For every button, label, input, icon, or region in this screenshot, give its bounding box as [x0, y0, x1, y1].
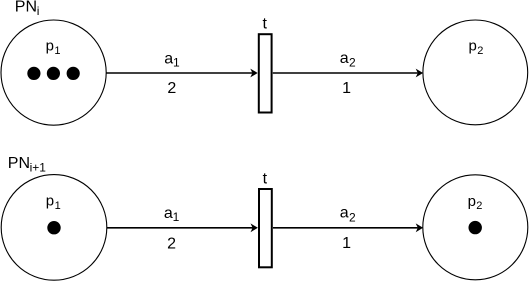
- svg-text:a: a: [164, 50, 173, 67]
- arc a1 arrowhead (row 1): [250, 69, 257, 78]
- svg-text:1: 1: [342, 80, 351, 97]
- token 1 in p1 (row 1): [27, 67, 40, 80]
- svg-text:1: 1: [173, 210, 180, 224]
- svg-text:1: 1: [55, 200, 61, 212]
- net label PN_i+1: [8, 155, 46, 175]
- arc a1 arrowhead (row 2): [251, 223, 258, 232]
- svg-text:1: 1: [173, 56, 180, 70]
- label a1 (row 2): [164, 205, 180, 224]
- label a1 (row 1): [164, 50, 180, 69]
- svg-text:2: 2: [349, 210, 356, 224]
- token 2 in p1 (row 1): [47, 67, 60, 80]
- svg-text:2: 2: [476, 200, 482, 212]
- svg-text:PN: PN: [8, 155, 30, 172]
- svg-text:i: i: [37, 4, 40, 18]
- transition t (row 1): [259, 34, 272, 112]
- svg-text:2: 2: [167, 80, 176, 97]
- place p1 (row 2): [1, 175, 107, 281]
- label p2 (row 2): [468, 193, 483, 212]
- label p2 (row 1): [469, 38, 484, 57]
- token in p1 (row 2): [47, 221, 60, 234]
- arc a2 arrowhead (row 1): [416, 69, 423, 78]
- svg-text:a: a: [340, 50, 349, 67]
- arc a2 wire (row 2): [273, 227, 418, 229]
- svg-text:PN: PN: [15, 0, 37, 16]
- place p1 (row 1): [1, 20, 106, 125]
- label a2 (row 2): [340, 205, 356, 225]
- svg-text:a: a: [340, 205, 349, 222]
- arc a2 wire (row 1): [273, 72, 418, 74]
- svg-text:2: 2: [349, 55, 356, 69]
- label p1 (row 1): [46, 38, 61, 57]
- svg-text:p: p: [469, 38, 477, 55]
- svg-text:1: 1: [54, 45, 60, 57]
- transition t (row 2): [259, 189, 272, 267]
- place p2 (row 1): [423, 20, 528, 125]
- svg-text:a: a: [164, 205, 173, 222]
- arc a2 arrowhead (row 2): [416, 223, 423, 232]
- net label PN_i: [15, 0, 40, 18]
- svg-text:2: 2: [167, 236, 176, 253]
- place p2 (row 2): [423, 175, 528, 280]
- svg-text:1: 1: [342, 235, 351, 252]
- arc a1 wire (row 2): [107, 227, 253, 229]
- label a2 (row 1): [340, 50, 356, 70]
- arc a1 wire (row 1): [106, 72, 252, 74]
- svg-text:p: p: [46, 193, 54, 210]
- svg-text:t: t: [262, 16, 267, 33]
- svg-text:2: 2: [477, 45, 483, 57]
- token 3 in p1 (row 1): [67, 67, 80, 80]
- svg-text:p: p: [468, 193, 476, 210]
- svg-text:t: t: [263, 170, 268, 187]
- token in p2 (row 2): [469, 221, 482, 234]
- label p1 (row 2): [46, 193, 61, 212]
- svg-text:i+1: i+1: [30, 160, 47, 174]
- svg-text:p: p: [46, 38, 54, 55]
